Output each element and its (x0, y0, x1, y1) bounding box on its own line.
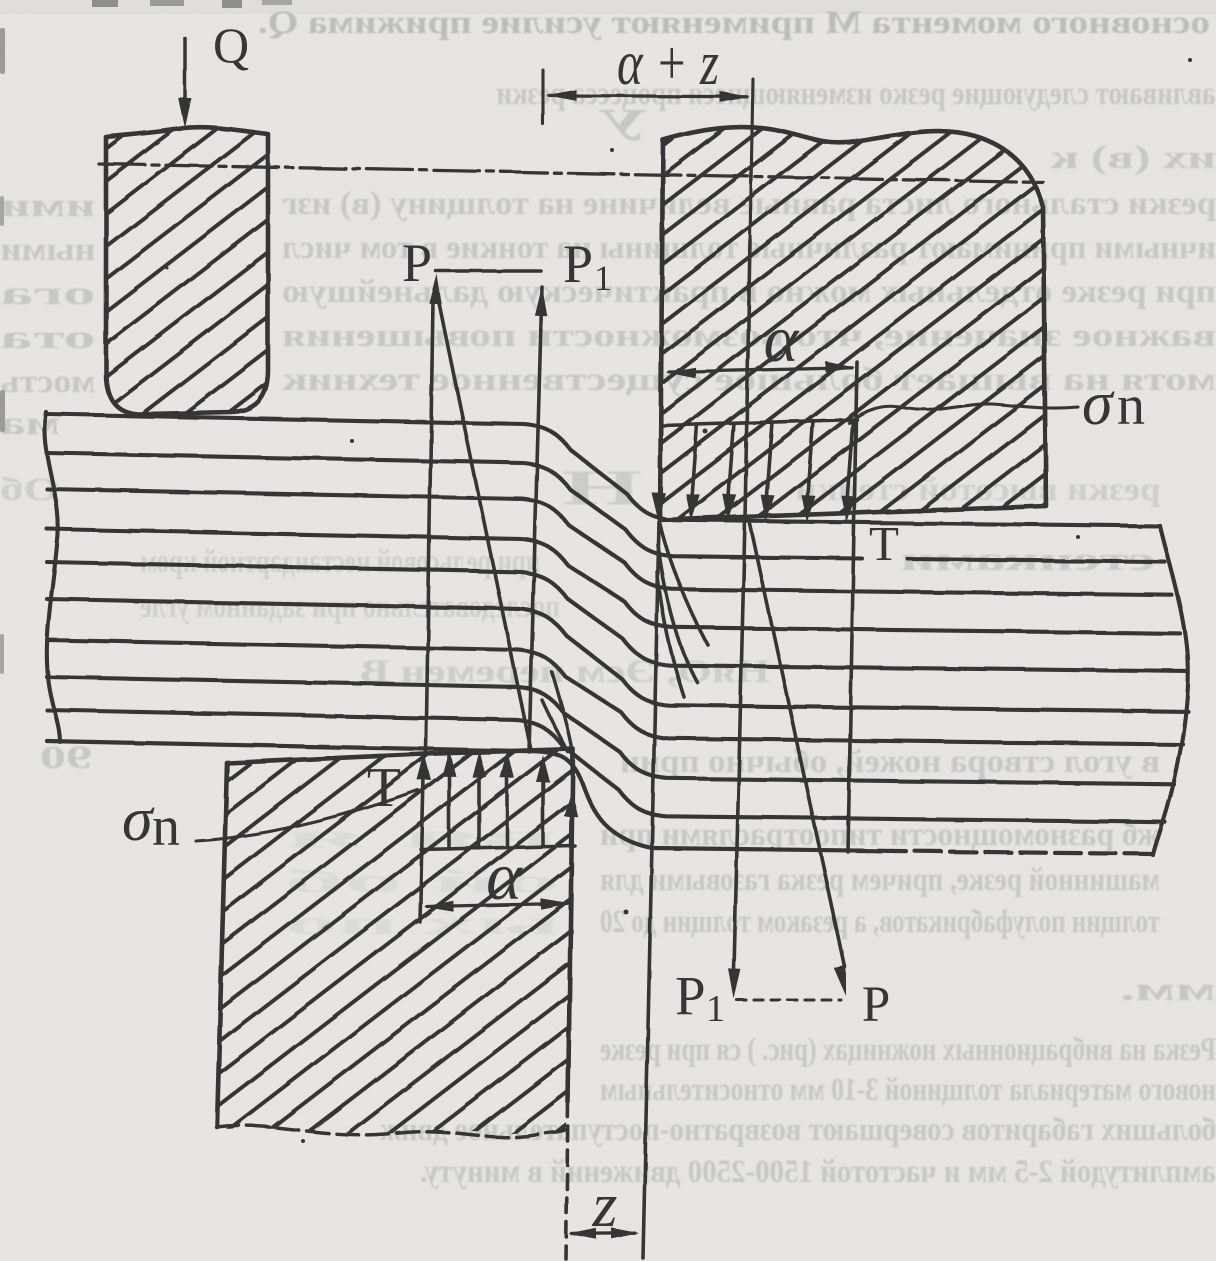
subtle vignette (0, 0, 1216, 14)
svg-text:z: z (592, 1169, 618, 1240)
svg-text:амплитудой 2-5 мм и частотой 1: амплитудой 2-5 мм и частотой 1500-2500 д… (420, 1154, 1216, 1190)
svg-text:n: n (152, 796, 180, 858)
svg-text:σ: σ (1082, 370, 1115, 438)
svg-text:нового материала толщиной 3-10: нового материала толщиной 3-10 мм относи… (600, 1072, 1216, 1108)
force P (upper) arrowhead (429, 274, 441, 304)
dimension alpha (upper) right arrowhead (825, 362, 855, 373)
pressure arrowhead (723, 494, 737, 521)
sheet layer line 3 (47, 489, 1172, 595)
force P1 (upper) arrowhead (535, 286, 547, 316)
dimension alpha+z left arrowhead (546, 90, 576, 101)
pressure arrowhead at blade corner (652, 493, 666, 520)
dimension alpha+z extension lines (541, 70, 544, 124)
sigma_n leader (lower) (196, 790, 418, 841)
svg-text:при рельсовой нестандартной кр: при рельсовой нестандартной кром (140, 544, 540, 580)
sheet layer line 10 (47, 741, 652, 848)
sheet layer line 4 (47, 529, 1180, 633)
pressure arrow (505, 771, 509, 848)
dash-dot reference line (99, 164, 1043, 182)
sheet layer line 6 (47, 599, 1188, 711)
svg-text:ими: ими (1, 188, 96, 224)
connector between P and P1 (436, 269, 541, 273)
pressure arrow (728, 423, 734, 501)
pressure arrowhead (686, 494, 700, 521)
top edge bleed fragments (92, 0, 118, 7)
svg-text:P: P (402, 233, 432, 293)
pressure arrowhead (802, 495, 816, 522)
force Q arrow (183, 38, 187, 102)
dimension alpha (upper) left arrowhead (666, 367, 696, 378)
svg-text:ота: ота (1, 320, 96, 356)
svg-text:σ: σ (122, 786, 155, 854)
pressure arrowhead (536, 755, 550, 782)
svg-text:их (в) к: их (в) к (1050, 140, 1216, 176)
sheet layer line 7 (47, 640, 1183, 745)
dimension alpha (lower) left arrowhead (424, 901, 454, 912)
dimension alpha (lower) (427, 903, 567, 906)
svg-text:n: n (1117, 375, 1145, 437)
dashed connector between P1 and P (lower) (737, 998, 841, 1001)
svg-text:ма: ма (0, 406, 60, 442)
deformation flow curves near upper blade edge (660, 524, 708, 645)
upper blade pressure distribution box top line (663, 420, 857, 426)
svg-text:мость: мость (1, 364, 96, 400)
svg-text:P: P (563, 234, 593, 294)
svg-text:в угол створа ножей, обычно пр: в угол створа ножей, обычно прин (620, 744, 1160, 780)
force P (lower) arrowhead (834, 965, 846, 996)
lower blade pressure distribution base line (421, 846, 575, 850)
pressure arrow (477, 770, 481, 848)
upper blade (knife) block (660, 127, 1046, 520)
dimension alpha+z right arrowhead (720, 91, 750, 102)
svg-text:толщин полуфабрикатов, а резак: толщин полуфабрикатов, а резаком толщин … (600, 904, 1160, 940)
svg-text:ными: ными (1, 232, 96, 268)
pressure arrow (447, 769, 451, 849)
svg-text:P: P (675, 965, 706, 1026)
svg-text:мм.: мм. (1120, 972, 1216, 1008)
pressure arrowhead at box left edge (417, 753, 431, 780)
dimension z right arrowhead (611, 1228, 639, 1239)
pressure arrowhead (442, 749, 456, 776)
pressure arrow (807, 421, 813, 503)
svg-text:α + z: α + z (617, 27, 719, 98)
punch / hold-down pad (106, 127, 268, 414)
pressure arrow (766, 422, 772, 502)
lower blade torn bottom edge (217, 1126, 567, 1138)
dimension z line (572, 1232, 635, 1236)
svg-text:1: 1 (706, 988, 725, 1030)
pressure arrow (691, 424, 697, 501)
pressure arrowhead (472, 750, 486, 777)
sheet left torn edge (44, 412, 60, 742)
pressure arrowhead (500, 751, 514, 778)
pressure box right edge (848, 362, 857, 852)
svg-text:α: α (486, 838, 523, 914)
svg-text:P: P (862, 977, 890, 1033)
svg-text:T: T (869, 516, 899, 571)
pressure arrowhead (841, 496, 855, 523)
svg-text:T: T (367, 757, 401, 819)
dimension z left arrowhead (569, 1228, 597, 1239)
lower blade (knife) block (218, 749, 573, 1134)
lower blade right edge dashed extension (566, 1102, 568, 1259)
cut line / upper blade edge extension (643, 522, 659, 1258)
force P1 (lower) line of action (734, 240, 750, 970)
dimension alpha (upper) (669, 368, 852, 372)
sheet right torn edge (1153, 526, 1188, 855)
force P1 (upper) line of action (529, 287, 542, 752)
sheet layer line 1 (47, 414, 1160, 526)
svg-text:1: 1 (594, 258, 612, 298)
force P (upper) line of action (426, 301, 433, 752)
dimension alpha (lower) right arrowhead (540, 898, 570, 909)
svg-text:основного момента М применяют: основного момента М применяют усилие при… (258, 5, 1210, 41)
pressure box left edge (420, 756, 424, 922)
pressure arrow (847, 420, 853, 503)
sigma_n leader (upper) (849, 404, 1078, 423)
sheet layer line 9 (47, 710, 1165, 822)
deformation flow curves near lower blade edge (552, 672, 572, 748)
svg-text:ога: ога (1, 276, 96, 312)
force P1 (lower) arrowhead (729, 969, 741, 999)
force P (lower) slanted line of action (749, 519, 845, 967)
svg-text:Н: Н (562, 459, 642, 515)
dimension alpha+z line (549, 95, 747, 96)
svg-text:У: У (598, 100, 648, 150)
svg-text:машинной резке, причем резка г: машинной резке, причем резка газовыми дл… (600, 862, 1160, 898)
force Q arrowhead (179, 98, 192, 128)
pressure arrowhead at blade edge (564, 790, 578, 817)
svg-text:Q: Q (213, 17, 249, 73)
sheet layer line 2 (47, 453, 862, 559)
pressure arrowhead (761, 495, 775, 522)
svg-text:α: α (764, 303, 800, 376)
sheet layer line 8 (47, 677, 1174, 784)
pressure arrow (541, 775, 545, 847)
left margin streaks (0, 28, 5, 74)
sheet layer line 5 (47, 562, 1186, 671)
svg-text:Резка на вибрационных ножницах: Резка на вибрационных ножницах (рис. ) с… (600, 1032, 1216, 1068)
svg-text:90: 90 (40, 740, 92, 776)
scan specks (703, 429, 708, 434)
